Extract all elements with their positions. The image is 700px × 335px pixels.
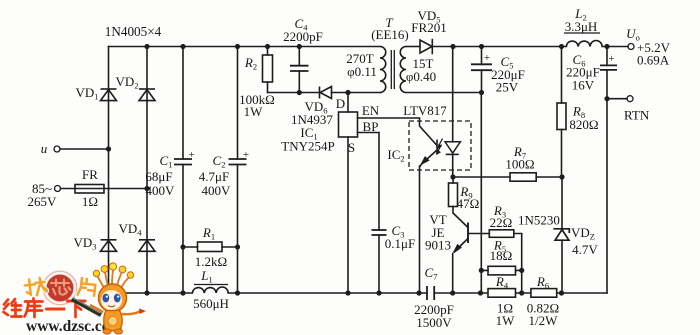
optocoupler LED <box>445 142 460 155</box>
terminal 85-265V <box>55 186 61 192</box>
mascot feet <box>103 329 111 334</box>
svg-text:2200pF: 2200pF <box>283 29 323 44</box>
svg-text:820Ω: 820Ω <box>569 117 598 132</box>
optocoupler phototransistor <box>420 118 438 167</box>
svg-text:3.3μH: 3.3μH <box>565 19 598 34</box>
diode VD3 <box>101 240 117 252</box>
capacitor C3 plates <box>372 230 387 235</box>
svg-text:400V: 400V <box>202 183 232 198</box>
wire sense column from secondary return <box>480 93 482 294</box>
watermark text zhao <box>24 277 47 296</box>
watermark stamp circle <box>43 271 77 305</box>
wire C6 RTN column <box>606 47 608 294</box>
terminal Uo <box>628 44 634 50</box>
wire R5 leads <box>481 269 521 271</box>
capacitor C5 plates <box>471 64 492 70</box>
svg-text:9013: 9013 <box>425 238 451 253</box>
svg-text:C2: C2 <box>213 153 226 170</box>
svg-text:C1: C1 <box>160 153 173 170</box>
wire C4 branch <box>298 47 300 93</box>
svg-text:400V: 400V <box>146 183 176 198</box>
wire secondary top to VD5 <box>406 46 420 48</box>
svg-text:VD4: VD4 <box>118 221 142 238</box>
svg-text:+: + <box>188 149 194 161</box>
capacitor C7 plates <box>427 286 434 300</box>
resistor R5 body <box>488 266 516 275</box>
svg-text:1/2W: 1/2W <box>529 313 559 328</box>
wire R9 leads <box>452 177 454 213</box>
svg-text:C7: C7 <box>425 265 438 282</box>
capacitor C4 plates <box>290 66 309 71</box>
wire R8 zener column <box>561 47 564 294</box>
junction dot u node <box>106 146 111 151</box>
svg-text:560μH: 560μH <box>193 296 229 311</box>
inductor L2 <box>564 33 602 47</box>
resistor R3 body <box>489 230 514 238</box>
transformer T core <box>391 50 394 89</box>
mascot head <box>99 284 127 312</box>
mascot mouth <box>108 306 115 307</box>
svg-text:25V: 25V <box>496 80 519 95</box>
junction dot R7 R8 zener node <box>559 174 564 179</box>
resistor R7 body <box>510 173 536 181</box>
junction dots bottom rail <box>144 290 149 295</box>
wire BP pin to C3 <box>358 133 380 294</box>
wire S pin to ground rail <box>347 137 349 293</box>
svg-text:22Ω: 22Ω <box>490 215 513 230</box>
wire LED branch <box>452 47 454 178</box>
svg-text:0.1μF: 0.1μF <box>385 236 415 251</box>
mascot belly <box>108 316 117 325</box>
wire RTN tap <box>607 98 627 100</box>
svg-text:FR201: FR201 <box>411 20 446 35</box>
wire u input <box>60 148 109 150</box>
junction dots R5 row <box>479 268 484 273</box>
svg-text:1W: 1W <box>496 313 516 328</box>
junction dots R1 <box>180 244 185 249</box>
IC U1 TNY254P body <box>339 112 358 137</box>
diode VD1 <box>101 89 117 101</box>
transformer T primary winding <box>380 47 386 93</box>
svg-text:+: + <box>484 52 490 64</box>
mascot body <box>104 311 122 331</box>
wire second bridge column <box>146 47 148 294</box>
mascot face <box>101 290 122 310</box>
transformer T secondary winding <box>400 47 406 93</box>
wire top rail primary side <box>109 46 381 48</box>
wire opto emitter to ground <box>419 166 421 293</box>
svg-text:EN: EN <box>362 103 380 118</box>
mascot tentacle balls <box>93 263 133 278</box>
wire left bridge column <box>108 47 110 294</box>
resistor R1 body <box>198 242 223 252</box>
svg-text:VD3: VD3 <box>73 235 96 252</box>
svg-text:TNY254P: TNY254P <box>281 139 334 154</box>
junction dots top rail <box>144 44 149 49</box>
svg-text:IC2: IC2 <box>387 147 404 164</box>
wire C5 branch <box>481 47 483 93</box>
watermark text weiku yixia <box>4 299 86 318</box>
svg-text:1N5230: 1N5230 <box>518 213 560 228</box>
wire C2 branch <box>237 47 239 294</box>
wire mains input through FR <box>61 188 148 190</box>
svg-text:u: u <box>41 141 48 156</box>
wire snubber bottom <box>268 92 349 94</box>
svg-text:47Ω: 47Ω <box>457 196 480 211</box>
optocoupler light arrows <box>436 139 442 156</box>
capacitor C1 plates <box>174 159 192 165</box>
svg-text:VD1: VD1 <box>75 85 98 102</box>
svg-text:FR: FR <box>82 167 98 182</box>
svg-text:D: D <box>336 96 345 111</box>
zener diode VDZ <box>553 229 569 240</box>
svg-text:R2: R2 <box>244 55 257 72</box>
wire D pin <box>347 93 349 113</box>
mascot eyes <box>102 294 109 303</box>
svg-text:+: + <box>608 53 614 65</box>
fuse resistor FR <box>75 185 104 194</box>
svg-text:1.2kΩ: 1.2kΩ <box>195 254 227 269</box>
svg-text:S: S <box>348 140 355 155</box>
terminal u <box>54 146 60 152</box>
svg-text:1Ω: 1Ω <box>82 194 98 209</box>
diode VD4 <box>139 240 155 252</box>
svg-text:265V: 265V <box>28 194 58 209</box>
wire R2 branch <box>267 47 269 93</box>
optocoupler IC2 dashed box <box>409 121 471 170</box>
mascot tentacles <box>97 268 130 288</box>
diode VD2 <box>139 89 155 101</box>
inductor L1 <box>192 285 228 294</box>
wire R3 right drop <box>514 234 522 294</box>
wire EN pin <box>358 117 420 119</box>
svg-text:R4: R4 <box>495 274 509 291</box>
mascot left arm with pen <box>72 299 101 315</box>
diode VD6 <box>320 87 332 99</box>
junction dot D node <box>345 90 350 95</box>
transistor Q1 JE9013 <box>453 213 468 253</box>
capacitor C2 plates <box>229 159 247 165</box>
wire bottom rail left of C7 <box>109 292 428 294</box>
wire L2 to output <box>602 46 628 48</box>
wire R7 leads <box>453 176 562 178</box>
wire bottom rail right of C7 <box>434 292 607 294</box>
svg-text:BP: BP <box>363 119 379 134</box>
mascot right arm <box>122 312 140 315</box>
svg-text:4.7V: 4.7V <box>572 242 598 257</box>
junction dot C4 bottom <box>297 90 302 95</box>
svg-text:L1: L1 <box>200 268 212 285</box>
resistor R4 body <box>488 289 516 298</box>
svg-text:1N4005×4: 1N4005×4 <box>105 24 162 39</box>
svg-text:VDZ: VDZ <box>571 225 595 242</box>
svg-text:0.69A: 0.69A <box>637 53 670 68</box>
resistor R8 body <box>557 103 566 130</box>
resistor R6 body <box>531 289 557 298</box>
terminal RTN <box>627 96 633 102</box>
svg-text:68μF: 68μF <box>145 169 172 184</box>
resistor R9 body <box>449 183 458 207</box>
svg-text:R1: R1 <box>202 225 215 242</box>
svg-text:18Ω: 18Ω <box>490 248 513 263</box>
svg-text:RTN: RTN <box>624 108 650 123</box>
wire VT base to R3 <box>468 233 489 235</box>
junction dot mains node <box>144 186 149 191</box>
svg-text:1W: 1W <box>244 104 264 119</box>
svg-text:φ0.40: φ0.40 <box>406 69 436 84</box>
wire VT emitter drop <box>452 254 454 294</box>
resistor R2 body <box>263 55 273 82</box>
wire VD5 cathode to rectified node <box>433 46 453 48</box>
svg-text:+: + <box>243 149 249 161</box>
wire primary bottom to D node <box>348 92 380 94</box>
svg-text:16V: 16V <box>572 78 595 93</box>
wire rectified rail to L2 <box>453 46 566 48</box>
svg-text:VD2: VD2 <box>115 74 138 91</box>
junction dot secondary return <box>479 90 484 95</box>
svg-text:φ0.11: φ0.11 <box>347 64 377 79</box>
svg-text:100Ω: 100Ω <box>505 157 534 172</box>
wire C1 branch <box>182 47 184 294</box>
capacitor C6 plates <box>600 65 617 70</box>
svg-text:(EE16): (EE16) <box>371 27 409 42</box>
wire R1 leads <box>183 246 238 248</box>
junction dot RTN node <box>604 96 609 101</box>
svg-text:R6: R6 <box>536 274 549 291</box>
svg-text:1500V: 1500V <box>416 315 452 330</box>
watermark text pian <box>78 278 96 297</box>
watermark mascot <box>72 263 146 334</box>
svg-text:LTV817: LTV817 <box>403 103 447 118</box>
svg-text:4.7μF: 4.7μF <box>199 169 229 184</box>
wire secondary bottom return <box>406 92 482 94</box>
junction dot LED cathode node <box>450 174 455 179</box>
diode VD5 <box>420 39 432 54</box>
